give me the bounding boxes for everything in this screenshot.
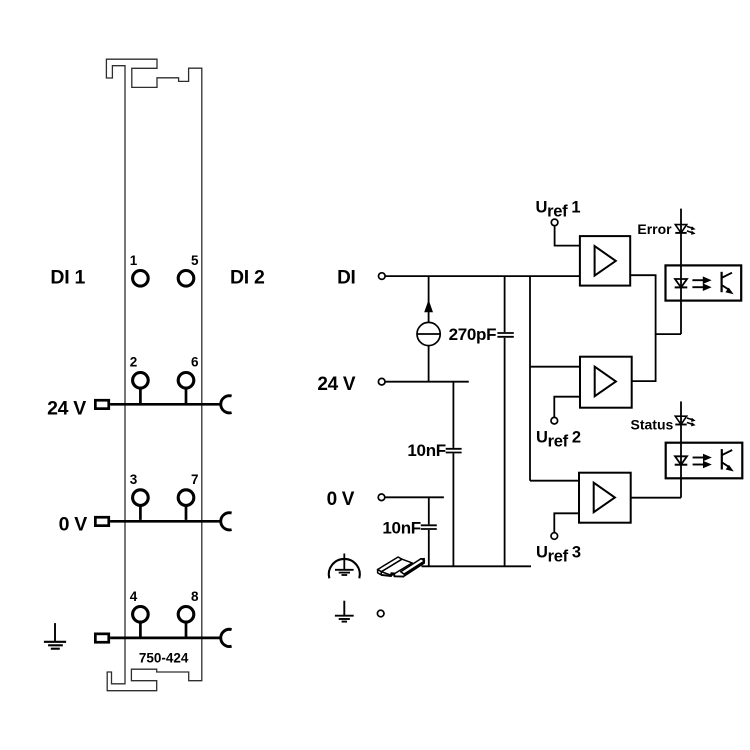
svg-text:24 V: 24 V [317,374,356,395]
op-amp U1 box [580,236,630,286]
terminal 6 [178,373,194,389]
0V wire [385,496,444,498]
module outline 750-424 body [106,59,201,691]
svg-text:0 V: 0 V [59,514,88,536]
LED Status triangle [675,416,686,424]
optocoupler box 1 [666,265,742,300]
opto2 LED triangle [675,456,687,464]
earth terminal circle [377,610,384,617]
status LED line [680,401,682,497]
stem terminal 7 to 0V bus [185,507,188,520]
0V plug square [95,517,108,525]
svg-text:10nF: 10nF [382,519,420,538]
terminal 4 [133,607,149,623]
functional earth symbol (shield) [329,554,360,579]
Uref3 terminal circle [551,533,558,540]
10nF branch 2 wire upper [428,497,430,524]
Uref2 wire [554,397,580,417]
current source branch wire [428,276,430,382]
10nF branch 2 wire lower [428,530,430,566]
svg-text:DI 2: DI 2 [230,266,265,288]
wire branch to amp 2 [530,366,580,368]
Uref1 terminal circle [551,219,558,226]
terminal 5 [178,271,194,287]
DI wire [385,275,580,277]
opto1 phototransistor [722,272,734,294]
opto2 phototransistor [722,449,734,471]
capacitor 270pF plates [497,333,513,337]
terminal 1 [133,271,149,287]
capacitor 10nF (upper) plates [446,449,462,453]
0V bus hook [221,513,232,530]
svg-text:2: 2 [130,355,138,370]
Uref2 terminal circle [551,417,558,424]
LED Status light arrows [687,418,696,427]
opto2 light transfer arrows [693,454,712,469]
svg-text:5: 5 [191,253,199,268]
24V bus hook [221,396,232,413]
svg-text:8: 8 [191,589,199,604]
DI terminal circle [379,273,386,280]
op-amp U2 output wire [632,334,656,381]
op-amp U3 triangle [594,483,615,513]
270pF branch wire lower [504,338,506,567]
Uref1 wire [555,226,580,246]
op-amp U2 triangle [595,367,616,397]
current source chord [417,333,440,335]
op-amp U1 triangle [595,246,616,276]
0V bus line [110,520,221,523]
svg-text:Status: Status [631,417,674,433]
svg-text:Error: Error [637,221,672,237]
terminal 3 [133,490,149,506]
24V plug square [95,400,108,408]
24V bus line [110,403,221,406]
op-amp U1 output wire [630,275,681,334]
Uref3 wire [554,513,579,532]
opto1 light transfer arrows [692,276,711,291]
270pF branch wire upper [504,276,506,332]
terminal 2 [133,373,149,389]
svg-text:750-424: 750-424 [139,650,189,665]
earth symbol (schematic bottom) [335,601,354,622]
error LED line [680,209,682,335]
0V terminal circle [378,494,385,501]
amps branch vertical wire [529,276,531,481]
op-amp U2 box [580,357,632,408]
wire branch to amp 3 [530,480,579,482]
LED Error cathode bar [675,232,686,234]
stem terminal 8 to earth bus [185,623,188,636]
opto2 LED cathode bar [675,464,688,466]
stem terminal 2 to 24V bus [139,389,142,403]
LED Status cathode bar [675,424,686,426]
earth plug square [95,634,108,642]
svg-text:4: 4 [130,589,138,604]
LED Error light arrows [687,226,696,235]
current source circle [417,322,440,345]
24V wire [385,381,469,383]
svg-text:270pF: 270pF [449,325,497,344]
10nF branch 1 wire lower [452,453,454,566]
stem terminal 4 to earth bus [139,623,142,636]
earth bus line [110,637,221,640]
DIN rail shield clamp [378,557,425,577]
24V terminal circle [378,378,385,385]
stem terminal 6 to 24V bus [185,389,188,403]
earth symbol (module left) [44,623,66,649]
op-amp U3 output wire [631,497,681,499]
svg-text:7: 7 [191,472,199,487]
opto1 LED triangle [675,279,687,287]
terminal 7 [178,490,194,506]
op-amp U3 box [579,473,631,523]
svg-text:0 V: 0 V [327,489,355,510]
opto1 LED cathode bar [675,286,688,288]
shield wire [422,565,532,567]
10nF branch 1 wire upper [452,382,454,448]
svg-text:24 V: 24 V [47,398,86,420]
terminal 8 [178,607,194,623]
svg-text:3: 3 [130,472,138,487]
LED Error triangle [675,225,686,233]
current source arrow up [424,300,433,313]
earth bus hook [221,629,232,646]
svg-text:DI: DI [337,267,355,288]
svg-text:10nF: 10nF [407,441,445,460]
svg-text:6: 6 [191,355,199,370]
capacitor 10nF (lower) plates [421,525,437,529]
svg-text:DI 1: DI 1 [50,266,85,288]
stem terminal 3 to 0V bus [139,507,142,520]
optocoupler box 2 [666,443,743,479]
svg-text:1: 1 [130,253,138,268]
